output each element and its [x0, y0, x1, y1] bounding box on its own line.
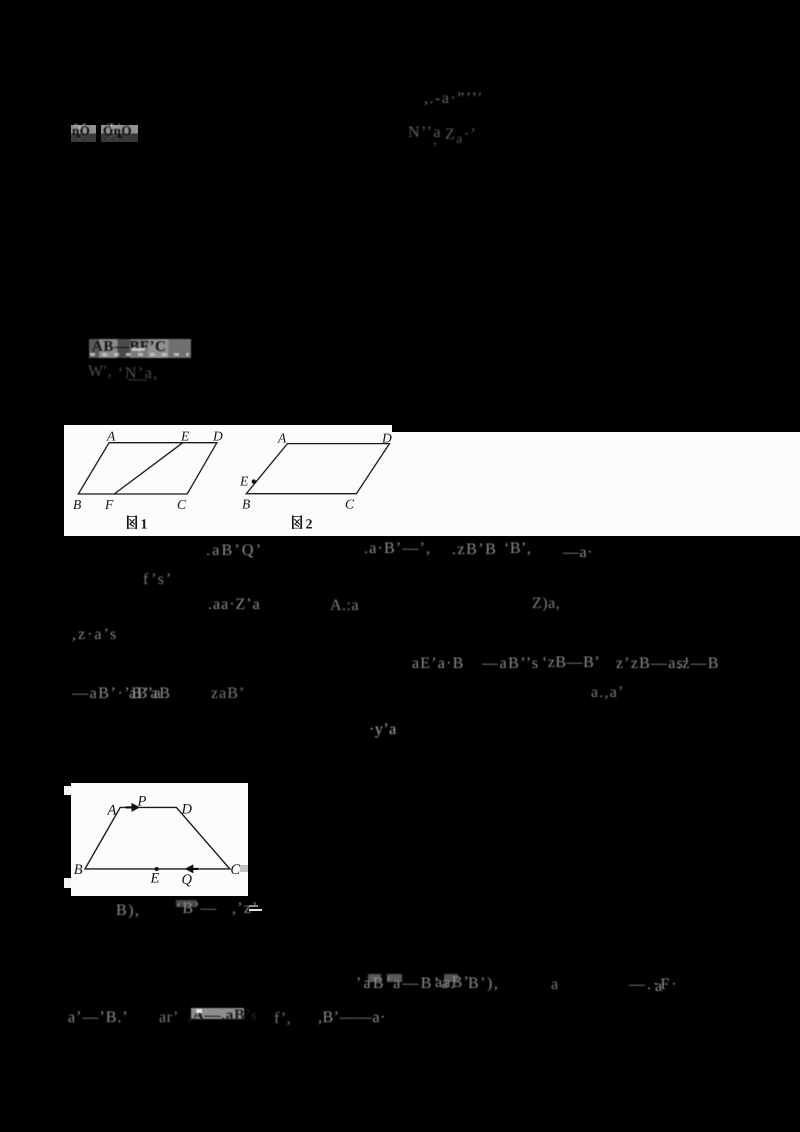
svg-text:E: E	[149, 871, 159, 887]
faint text row F	[206, 542, 263, 560]
svg-text:P: P	[136, 794, 146, 810]
point E dot	[154, 867, 158, 871]
svg-text:B: B	[73, 862, 82, 878]
faint text row C	[408, 124, 442, 142]
bright dash	[249, 905, 258, 907]
svg-text:2: 2	[306, 518, 313, 533]
point E dot fig2	[252, 479, 256, 483]
white figure box 2 (trapezoid)	[64, 786, 72, 795]
highlighted word block B2	[101, 125, 138, 142]
broken light underline below band D	[90, 353, 189, 356]
caption 图2	[293, 516, 301, 530]
svg-text:A: A	[277, 431, 287, 446]
svg-text:E: E	[239, 474, 249, 489]
light dash in band D	[131, 348, 145, 351]
parallelogram ABCD fig1	[78, 443, 217, 494]
trapezoid ABCD	[85, 807, 230, 869]
faint text row L	[369, 721, 397, 739]
svg-text:D: D	[381, 431, 392, 446]
highlighted word block B1	[71, 125, 96, 142]
arrow P on AD	[125, 806, 132, 808]
parallelogram ABCD fig2	[246, 444, 389, 494]
svg-text:B: B	[73, 497, 81, 512]
svg-text:F: F	[104, 497, 114, 512]
faint text row I	[72, 626, 118, 644]
svg-text:D: D	[180, 802, 192, 818]
svg-text:D: D	[212, 429, 223, 444]
faint text row A (x426 y93)	[424, 90, 483, 108]
faint text row E	[88, 363, 112, 381]
svg-text:1: 1	[141, 518, 148, 533]
segment EF fig1	[114, 443, 183, 494]
highlight O3	[191, 1008, 244, 1019]
faint text row O	[68, 1009, 129, 1027]
svg-text:C: C	[230, 862, 240, 878]
svg-text:A: A	[106, 429, 116, 444]
svg-text:E: E	[180, 429, 190, 444]
white figure box 1 (two parallelograms)	[64, 432, 800, 536]
arrow Q on BC	[191, 868, 198, 870]
highlighted equation band D	[89, 339, 191, 358]
svg-text:B: B	[242, 497, 250, 512]
caption 图1	[128, 516, 136, 530]
svg-text:A: A	[106, 803, 116, 819]
svg-text:C: C	[177, 497, 187, 512]
faint text row M	[116, 902, 141, 920]
faint text row G	[143, 571, 173, 589]
faint text row N	[368, 974, 381, 982]
svg-text:C: C	[345, 497, 355, 512]
faint text row J	[412, 655, 465, 673]
gray nub near C	[240, 865, 248, 872]
svg-text:Q: Q	[181, 872, 192, 888]
faint text row H	[208, 596, 261, 614]
faint text row K	[72, 685, 172, 703]
